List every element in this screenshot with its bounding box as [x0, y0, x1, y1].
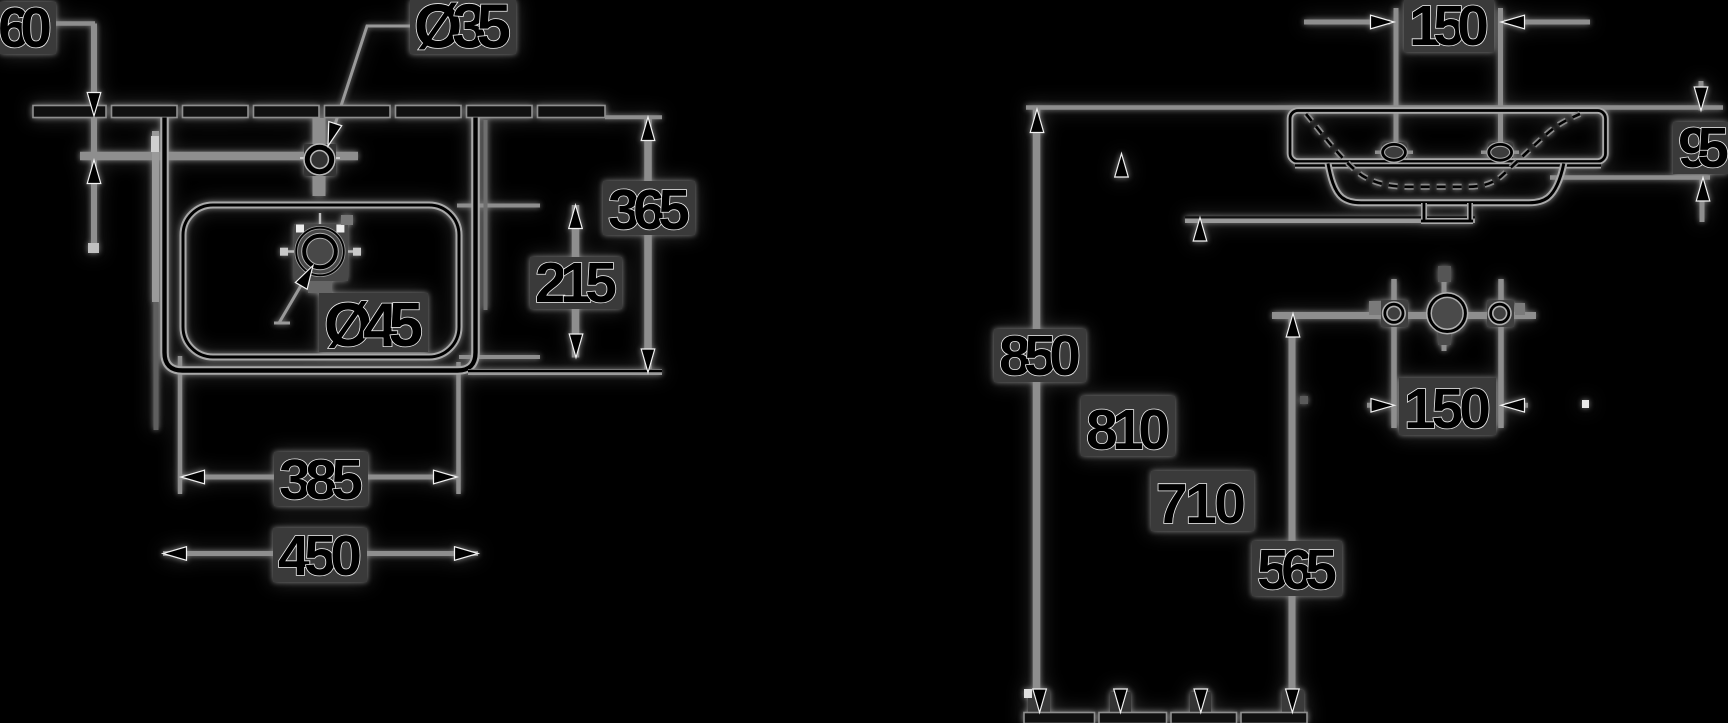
artifact panel behind 95 [1673, 122, 1728, 174]
overflow row horizontal centerline [1272, 312, 1536, 319]
artifact panel behind 810 [1081, 396, 1175, 456]
dim 95 vertical line top [1699, 81, 1704, 111]
dim 565 floor arrow (down) [1286, 689, 1300, 713]
svg-text:150: 150 [1409, 0, 1489, 58]
label 850 [999, 324, 1081, 388]
dim 150 top right stub [1504, 20, 1590, 25]
svg-text:Ø35: Ø35 [414, 0, 511, 62]
dim 150 top left stub [1304, 20, 1390, 25]
label 150 top [1409, 0, 1489, 58]
label 60 [0, 0, 52, 60]
drain outer circle (top view) [296, 228, 344, 276]
svg-text:385: 385 [279, 448, 363, 512]
artifact panel behind 60 [0, 2, 56, 54]
drain circle lower tick [1442, 325, 1447, 351]
overflow left vertical centerline [1391, 279, 1397, 428]
dim 215 bottom arrow (down) [569, 334, 583, 358]
dim 810 floor arrow (down) [1114, 689, 1128, 713]
dim 850 floor arrow (down) [1033, 689, 1047, 713]
diameter 35 leader arrow [322, 122, 342, 149]
dim 215 top extension [457, 204, 540, 208]
artifact white dot near lower 150 [1582, 400, 1589, 408]
dim 850 top arrow (up) [1030, 109, 1044, 133]
faucet horizontal centerline [80, 156, 358, 158]
overflow hole left circle (front view) [1385, 304, 1403, 322]
dim 60 lower arrow (up) [87, 160, 101, 184]
artifact panel behind 385 [274, 452, 368, 506]
dim 385 left arrow [181, 470, 205, 484]
drain trap box (front view) [1421, 203, 1473, 221]
artifact dot at end of 60 line [88, 243, 99, 253]
wall section band (top view) [33, 106, 605, 118]
drain inner circle (top view) [304, 236, 336, 268]
artifact patch around faucet ellipse left [1382, 142, 1407, 163]
dim 95 top arrow (down) [1694, 87, 1708, 111]
dim 385 left extension [178, 356, 183, 494]
svg-text:710: 710 [1156, 472, 1246, 536]
leader line for diameter 45 [274, 265, 313, 323]
dim 450 right arrow [455, 547, 479, 561]
svg-text:450: 450 [278, 524, 362, 588]
drain circle upper tick [1442, 280, 1447, 302]
dim 810 top arrow (up) [1115, 154, 1129, 178]
label 385 [279, 448, 363, 512]
dim 385 right extension [456, 362, 461, 494]
dim 95 bottom extension [1550, 175, 1710, 180]
artifact dot left of 565 [1300, 396, 1308, 404]
svg-text:565: 565 [1257, 538, 1337, 602]
dim 565 top arrow (up) [1286, 314, 1300, 338]
side extension line right of basin [484, 120, 488, 310]
svg-text:810: 810 [1086, 398, 1170, 462]
dim 150 top right arrow (left) [1501, 15, 1525, 29]
label 450 [278, 524, 362, 588]
dim 60 leader horizontal [52, 21, 95, 26]
leader line for diameter 35 [328, 26, 413, 146]
hidden bowl dashed line (front view) [1306, 114, 1580, 187]
dim 60 vertical line [91, 24, 97, 250]
faucet hole left vertical centerline [1394, 8, 1399, 166]
artifact patch around overflow middle circle [1431, 266, 1463, 345]
dim 365 top extension [605, 115, 662, 119]
dim 450 line [163, 551, 478, 556]
dim 385 right arrow [434, 470, 458, 484]
drain cross vertical tick (top view) [319, 213, 321, 290]
artifact patch around faucet ellipse right [1488, 142, 1513, 163]
svg-text:95: 95 [1678, 116, 1728, 180]
under-basin extension line [1185, 218, 1475, 221]
dim 850 vertical line [1033, 109, 1041, 712]
bowl underside profile (front view) [1328, 164, 1564, 203]
dim 95 bottom arrow (up) [1696, 178, 1710, 202]
artifact panel behind diameter 45 [319, 293, 428, 352]
artifact panel behind 215 [530, 257, 622, 309]
faucet hole ellipse left (front view) [1383, 144, 1406, 160]
label 215 [535, 251, 617, 315]
dim 710 top arrow (up) [1193, 218, 1207, 242]
svg-text:850: 850 [999, 324, 1081, 388]
dim 565 vertical line [1289, 313, 1296, 712]
artifact panel behind 450 [273, 528, 367, 582]
dim 385 line [181, 475, 457, 480]
artifact patch around drain (top view) [280, 215, 361, 293]
floor section band (front view) [1024, 713, 1307, 723]
label diameter 45 [324, 291, 423, 360]
label 565 [1257, 538, 1337, 602]
drain hole middle circle (front view) [1429, 295, 1465, 331]
diameter 45 leader arrow [295, 262, 319, 289]
dim 95 vertical line bottom [1700, 178, 1705, 223]
artifact patch at 565 floor arrow [1282, 690, 1304, 712]
label 95 [1678, 116, 1728, 180]
svg-text:150: 150 [1404, 377, 1491, 441]
artifact panel behind 710 [1151, 471, 1254, 531]
basin rim rounded rect (front view) [1290, 111, 1606, 162]
artifact panel behind 150 lower [1399, 378, 1496, 435]
dim 215 top arrow (up) [569, 205, 583, 229]
dim 215 vertical line [572, 205, 580, 358]
faucet vertical centerline [313, 118, 326, 196]
dim 150 lower right stub [1505, 403, 1528, 408]
faucet hole circle (top view) [307, 147, 331, 171]
dim 365 bottom arrow (down) [641, 349, 655, 373]
basin bottom extension line (top view) [468, 371, 662, 372]
artifact panel behind 365 [603, 181, 695, 235]
artifact panel behind diameter 35 [410, 0, 516, 54]
svg-text:Ø45: Ø45 [324, 291, 423, 360]
overflow right vertical centerline [1498, 279, 1504, 428]
svg-text:365: 365 [608, 178, 690, 242]
label diameter 35 [414, 0, 511, 62]
dim 710 floor arrow (down) [1194, 689, 1208, 713]
overflow hole right circle (front view) [1491, 304, 1509, 322]
dim 365 top arrow (up) [641, 117, 655, 141]
dim 450 left arrow [163, 547, 187, 561]
artifact patch at 810 floor arrow [1110, 692, 1131, 712]
artifact panel behind 850 [994, 329, 1086, 382]
svg-text:60: 60 [0, 0, 52, 60]
dim 150 lower right arrow (left) [1501, 399, 1525, 413]
faucet ellipse left tick [1375, 151, 1413, 155]
basin inner bowl outline (top view) [183, 205, 459, 357]
drain cross horizontal tick (top view) [280, 250, 360, 252]
dim 150 lower left stub [1367, 403, 1390, 408]
artifact patch around overflow right circle [1487, 300, 1525, 327]
label 710 [1156, 472, 1246, 536]
label 150 lower [1404, 377, 1491, 441]
svg-text:215: 215 [535, 251, 617, 315]
side gray rail left of basin [151, 131, 159, 430]
artifact panel behind 565 [1252, 541, 1342, 596]
artifact patch at 710 floor arrow [1190, 692, 1211, 712]
label 810 [1086, 398, 1170, 462]
rim top extension line (front view) [1026, 105, 1723, 110]
rim inner bottom line (front view) [1295, 163, 1601, 169]
dim 60 upper arrow (down) [87, 93, 101, 117]
basin outer outline (top view) [165, 118, 476, 371]
faucet ellipse right tick [1481, 151, 1519, 155]
artifact patch around faucet hole (top view) [304, 144, 336, 176]
dim 365 vertical line [644, 117, 652, 373]
dim 215 bottom extension [459, 355, 540, 359]
faucet hole right vertical centerline [1498, 8, 1503, 163]
artifact panel behind 150 top [1404, 0, 1494, 52]
artifact patch at 850 floor arrow [1024, 689, 1050, 712]
faucet hole ellipse right (front view) [1489, 144, 1512, 160]
dim 150 top left arrow (right) [1371, 15, 1395, 29]
artifact patch around overflow left circle [1369, 300, 1408, 327]
dim 150 lower left arrow (right) [1371, 399, 1395, 413]
label 365 [608, 178, 690, 242]
